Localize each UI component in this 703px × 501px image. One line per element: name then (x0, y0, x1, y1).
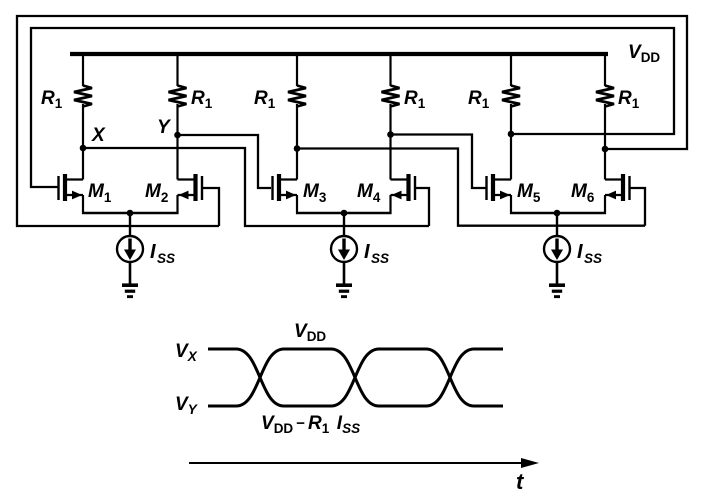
transistor M3 (273, 174, 298, 214)
node X (80, 145, 87, 152)
wire: stage 1 tail (82, 212, 179, 214)
wire: M4 drain to M5 gate (391, 135, 487, 189)
svg-text:X: X (91, 125, 106, 146)
node M5 drain (508, 131, 515, 138)
wire: M1 drain column (82, 104, 84, 180)
ground (stage 1) (122, 283, 138, 298)
wire: outer feedback loop (M6 drain to M2 gate path) (17, 16, 687, 226)
resistor R1 (stage 1 left) (74, 54, 92, 107)
wire: M5 drain column (510, 104, 512, 180)
wire: stage 3 tail (510, 212, 606, 214)
wire: stage 2 tail (296, 212, 392, 214)
svg-text:SS: SS (371, 251, 389, 266)
wire: tail to current source (stage 3) (556, 213, 558, 236)
svg-text:I: I (150, 241, 156, 263)
wire: current source to ground (stage 1) (129, 262, 132, 284)
wire: tail to current source (stage 1) (129, 213, 131, 236)
node Y (174, 132, 181, 139)
power rail VDD (70, 52, 608, 56)
node M6 drain (602, 146, 609, 153)
resistor R1 (stage 3 left) (502, 54, 520, 107)
wire: current source to ground (stage 2) (343, 262, 346, 284)
transistor M5 (487, 174, 512, 214)
svg-text:I: I (364, 241, 370, 263)
resistor R1 (stage 1 right) (169, 54, 187, 107)
transistor M6 (605, 174, 630, 214)
wire: M4 gate riser (415, 188, 429, 226)
wire: M2 drain column (176, 104, 178, 180)
wire: M2 gate riser from outer loop (202, 188, 219, 226)
transistor M1 (59, 174, 84, 214)
wire: current source to ground (stage 3) (556, 262, 559, 284)
svg-text:SS: SS (584, 251, 602, 266)
node stage 3 tail (554, 210, 561, 217)
waveform VY (208, 349, 503, 406)
resistor R1 (stage 2 right) (382, 54, 400, 107)
wire: M3 drain column (296, 104, 298, 180)
wire: node X to M4 gate (via lower channel) (83, 148, 429, 226)
wire: M3 drain to M6 gate (via lower channel) (297, 149, 645, 226)
current source ISS (stage 1) (117, 236, 143, 262)
ground (stage 3) (549, 283, 565, 298)
wire: M6 gate riser (629, 188, 645, 226)
node stage 2 tail (341, 210, 348, 217)
resistor R1 (stage 3 right) (596, 54, 614, 107)
svg-text:SS: SS (157, 251, 175, 266)
transistor M4 (391, 174, 416, 214)
wire: inner feedback loop (M5 drain to M1 gate) (31, 28, 674, 187)
resistor R1 (stage 2 left) (288, 54, 306, 107)
wire: M4 drain column (389, 104, 391, 180)
waveform VX (208, 349, 503, 406)
svg-text:I: I (577, 241, 583, 263)
current source ISS (stage 2) (331, 236, 357, 262)
node M3 drain (294, 145, 301, 152)
transistor M2 (178, 174, 203, 214)
wire: M6 drain column (604, 104, 606, 180)
wire: node Y to M3 gate (178, 135, 272, 188)
node M4 drain (387, 131, 394, 138)
time axis arrow (189, 458, 539, 468)
ground (stage 2) (336, 283, 352, 298)
node stage 1 tail (127, 210, 134, 217)
wire: tail to current source (stage 2) (343, 213, 345, 236)
current source ISS (stage 3) (544, 236, 570, 262)
